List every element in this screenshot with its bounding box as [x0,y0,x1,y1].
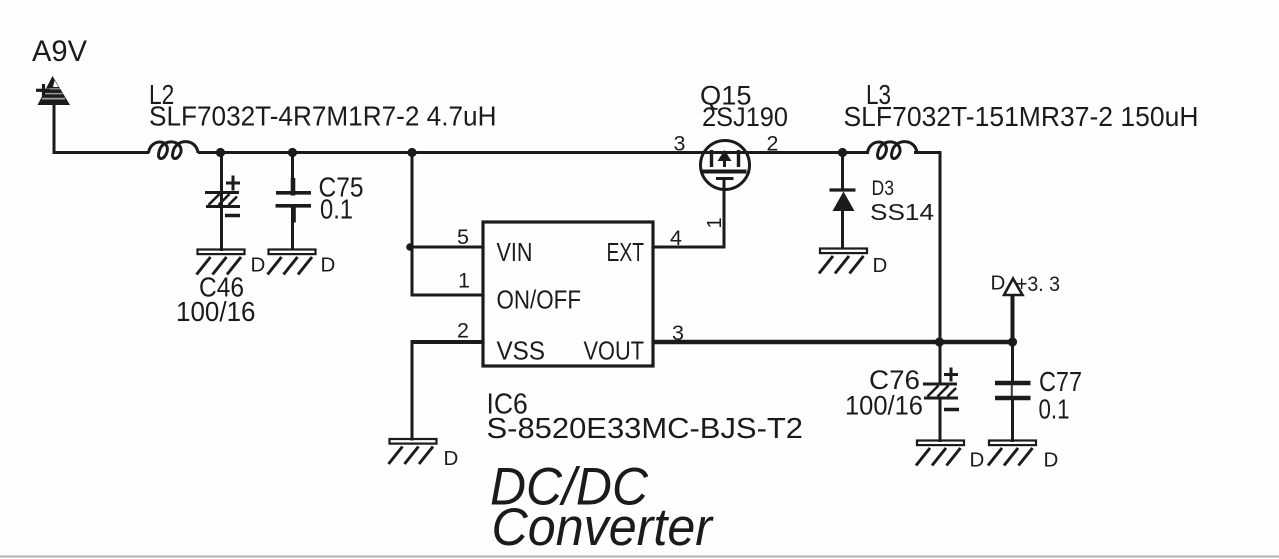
capacitor C75 [276,178,312,223]
svg-text:0.1: 0.1 [320,194,353,225]
svg-text:SS14: SS14 [870,199,934,225]
wire: C76 bottom stub [939,399,942,442]
svg-text:2: 2 [767,132,779,156]
ground G5 (C76) [916,441,964,466]
transistor Q15 [701,141,750,190]
svg-text:D: D [873,254,888,277]
inductor L2 [149,142,199,159]
svg-text:2SJ190: 2SJ190 [702,102,788,132]
wire: C46 vertical [220,152,223,251]
svg-text:+3. 3: +3. 3 [1016,272,1060,296]
wire: C75 top stub [291,152,294,192]
svg-text:D: D [444,447,459,470]
svg-text:0.1: 0.1 [1039,394,1070,425]
wire: EXT pin 4 [653,246,724,249]
ground G6 (C77) [988,441,1036,466]
svg-text:A9V: A9V [32,35,87,68]
svg-text:D3: D3 [872,176,895,200]
ground G2 (C75) [268,250,316,275]
ground G4 (D3) [819,249,867,274]
wire: C75 bottom stub [291,207,294,251]
wire: ON/OFF pin 1 [411,294,484,297]
wire: VSS pin 2 [412,340,483,344]
svg-text:5: 5 [457,225,469,249]
svg-text:4: 4 [670,226,682,250]
svg-text:D: D [1044,449,1059,472]
wire: +3.3 vertical [1011,296,1015,343]
svg-text:100/16: 100/16 [176,296,256,327]
svg-text:3: 3 [674,132,686,156]
wire: right vertical from L3 down to VOUT rail [939,151,942,343]
wire: A9V vertical drop [53,100,56,154]
wire: D3 bottom stub [841,210,844,249]
svg-text:ON/OFF: ON/OFF [497,285,582,315]
node junction dots on main rail [216,148,225,157]
svg-text:D: D [970,449,985,472]
svg-text:1: 1 [704,217,726,228]
inductor L3 [868,142,918,159]
svg-text:S-8520E33MC-BJS-T2: S-8520E33MC-BJS-T2 [487,413,804,445]
node dot at VIN branch [406,243,414,251]
wire: C76 top stub [939,341,942,384]
node dot VOUT/C76 [935,337,944,346]
svg-text:VOUT: VOUT [584,336,645,366]
diode D3 [830,190,856,211]
svg-text:3: 3 [672,321,684,345]
svg-text:D: D [251,254,266,277]
node dot at D3/L3 [838,148,847,157]
power symbol A9V [36,76,70,105]
power symbol +3.3 [1004,279,1023,296]
svg-text:SLF7032T-4R7M1R7-2 4.7uH: SLF7032T-4R7M1R7-2 4.7uH [149,101,497,132]
ground G1 (C46) [197,250,245,275]
svg-text:100/16: 100/16 [845,391,923,421]
wire: vertical drop to IC pins [411,152,414,297]
wire: VSS down to ground [411,340,414,441]
capacitor C77 [995,383,1031,398]
wire: C77 bottom stub [1011,399,1014,442]
svg-text:VSS: VSS [497,336,546,366]
svg-text:1: 1 [458,269,470,293]
svg-text:VIN: VIN [497,237,533,267]
svg-text:EXT: EXT [607,237,645,267]
wire: VIN pin 5 [412,246,483,249]
svg-text:D: D [321,254,336,277]
IC6 box [483,222,653,366]
ground G3 (VSS) [389,439,437,464]
wire: C77 top stub [1011,341,1014,382]
wire: D3 top stub [841,151,844,189]
capacitor C76 (electrolytic) [923,368,959,410]
wire: L3 to right corner [914,151,942,154]
bottom page divider line [0,556,1279,558]
wire: main rail middle segment [198,151,869,154]
wire: main rail left segment [53,151,150,154]
svg-text:SLF7032T-151MR37-2 150uH: SLF7032T-151MR37-2 150uH [844,101,1199,132]
wire: VOUT rail [653,340,1013,345]
node dot VOUT/C77 [1008,337,1017,346]
capacitor C46 (electrolytic) [205,176,240,216]
svg-text:Converter: Converter [492,498,715,557]
wire: EXT up to Q15 gate [723,179,726,249]
svg-text:2: 2 [457,319,469,343]
svg-text:D: D [991,272,1006,295]
svg-text:C77: C77 [1039,366,1082,397]
